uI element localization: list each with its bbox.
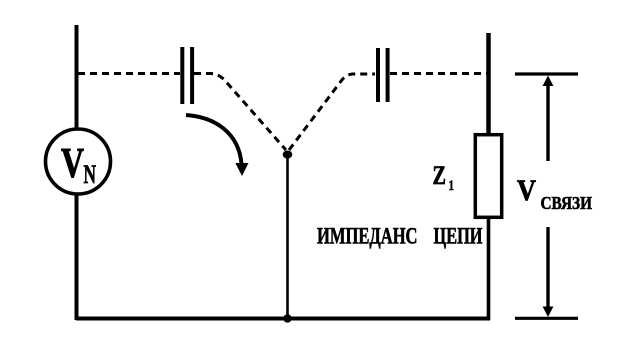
svg-text:ИМПЕДАНС: ИМПЕДАНС — [317, 224, 418, 249]
svg-text:Z: Z — [433, 161, 447, 190]
label VN — [61, 141, 96, 189]
dimension arrow vertical line upper segment — [546, 80, 549, 161]
dimension arrowhead up — [543, 76, 554, 87]
wire: right vertical below Z1 — [487, 218, 491, 320]
wire: center dotted vertical from node to rail — [286, 155, 289, 318]
wire: dashed from C1 bending down to node — [194, 74, 286, 151]
dimension arrowhead down — [543, 307, 554, 318]
dimension arrow top bar — [515, 72, 578, 75]
wire: dashed from source to C1 — [78, 72, 180, 75]
voltage source VN circle — [46, 129, 111, 194]
svg-text:V: V — [517, 174, 536, 207]
capacitor C2 plate left — [376, 48, 380, 102]
dimension arrow vertical line lower segment — [546, 227, 549, 312]
wire: dashed from C2 to right branch — [390, 72, 487, 75]
impedance Z1 rectangle — [475, 135, 501, 218]
svg-text:V: V — [61, 141, 84, 187]
node: junction dot on bottom rail — [283, 314, 291, 322]
wire: dashed from node bending up to C2 — [289, 74, 375, 150]
svg-text:СВЯЗИ: СВЯЗИ — [541, 193, 593, 213]
wire: bottom horizontal rail — [76, 317, 490, 321]
svg-text:1: 1 — [449, 178, 455, 194]
svg-text:N: N — [84, 160, 97, 189]
label Z1 — [433, 161, 455, 194]
capacitor C1 plate right — [190, 47, 194, 104]
dimension arrow bottom bar — [515, 317, 578, 320]
capacitor C2 plate right — [386, 48, 390, 102]
wire: left vertical top (source to C1 branch) — [75, 25, 79, 130]
label V coupling — [517, 174, 592, 213]
capacitor C1 plate left — [180, 47, 184, 104]
wire: right vertical above Z1 — [486, 33, 491, 134]
node: junction dot upper — [283, 151, 293, 159]
svg-text:ЦЕПИ: ЦЕПИ — [434, 224, 483, 249]
curved arrow (coupling direction) — [186, 115, 249, 176]
wire: left vertical bottom (source to ground rail) — [75, 194, 79, 320]
